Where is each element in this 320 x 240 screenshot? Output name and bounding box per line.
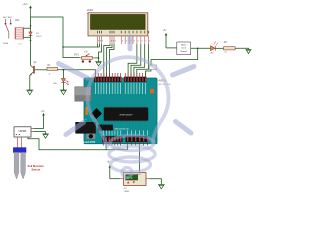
ground right of R2 [245,49,251,53]
relay RL1 contacts [6,19,11,39]
svg-text:+5v: +5v [41,111,46,113]
LCD pin name smudges [97,31,149,34]
node junction at (63,47) [62,46,64,48]
svg-text:RL1: RL1 [15,20,20,22]
svg-text:U1: U1 [124,188,128,190]
ground under LM393 [42,134,49,138]
wire LED1 to R2 [215,47,223,49]
wire to water sensor box [166,47,177,49]
resistor R1 [47,65,58,76]
svg-text:+5v: +5v [84,51,89,53]
wire Q1 base to R1 [35,69,47,71]
svg-text:Sensor: Sensor [180,50,187,53]
wire +5V to LM35 [110,178,121,180]
node +12V power arrow [23,4,32,17]
svg-text:ATMEGA328P: ATMEGA328P [120,113,134,116]
wire LCD E to arduino [109,44,114,77]
LCD pins [98,36,149,44]
arduino small chip [98,125,113,131]
svg-text:Read BTN: Read BTN [82,140,95,144]
svg-text:RV1: RV1 [74,55,79,57]
svg-text:100M: 100M [3,43,8,45]
svg-text:level: level [182,48,187,50]
wire Q1 emitter to ground [29,75,31,90]
wire arduino A3 to LM35 [139,146,141,171]
svg-text:NC NO: NC NO [3,17,12,19]
arduino top pin labels [95,83,146,94]
svg-text:LED: LED [53,83,57,85]
wire LCD VEE to pot junction and ground [99,44,102,62]
arduino USB connector [75,87,91,101]
LED D3 right [210,42,218,55]
wire h47 to LCD VDD [63,46,100,48]
wire LCD D4 to arduino [128,44,137,77]
arduino top header left [94,77,122,82]
relay RL1 labels [3,17,23,46]
svg-text:12V: 12V [18,44,22,46]
ground under LED [60,90,67,95]
svg-text:Soil Moisture: Soil Moisture [28,164,45,168]
wire arduino pin down [105,146,107,150]
svg-text:Water: Water [181,44,187,47]
svg-text:MN-0505D-SU: MN-0505D-SU [115,128,130,130]
potentiometer RV1 [74,51,95,62]
wire LM393 vcc [34,128,44,130]
arduino power jack [75,122,96,134]
svg-text:LM35: LM35 [124,191,130,193]
arduino top header right [124,77,147,82]
relay RL1 coil [15,28,24,40]
wire coil stub top [24,27,31,29]
arduino bottom header left [102,136,123,142]
arduino orange part right [150,89,154,94]
LED D2 [53,79,69,86]
watermark light bulb [59,37,195,178]
wire LCD D5 to arduino [131,44,141,77]
LM393 right stubs [31,128,34,130]
arduino logo diamond [91,108,102,119]
wire LCD D6 to arduino [134,44,145,77]
svg-text:LED: LED [210,52,214,54]
wire LED to ground [62,82,64,90]
resistor R2 [224,42,236,54]
net label box [150,65,157,70]
LCD1 labels [87,9,94,15]
node +5V arrow water sensor [163,30,168,48]
LCD pin numbers [98,40,150,42]
wire junction down to arduino pin0 [146,48,198,77]
arduino MCU ATMEGA328P [104,106,148,121]
wire coil stub bottom [24,36,31,38]
svg-text:+12v: +12v [23,4,29,6]
soil probe left [14,152,19,179]
svg-text:+5v: +5v [163,30,168,32]
diode D1 1N4007 [29,32,42,38]
svg-text:R2: R2 [224,42,228,44]
arduino bottom pin labels [103,130,148,135]
wire LM35 to ground [149,179,161,185]
node junction LED branch [63,69,65,71]
wire top horizontal to x63 [31,17,80,58]
arduino bottom header right [126,136,148,142]
LM35 right pin [146,178,149,180]
svg-text:LM393: LM393 [19,130,27,133]
wire LCD RS to arduino [104,44,110,77]
LM35 top pin [139,171,141,173]
wire LCD VDD stub [99,44,101,47]
node junction water sensor [197,48,199,50]
node +5V arrow LM393 [41,111,46,129]
ground under Q1 [26,90,33,95]
water level sensor box [177,42,191,55]
LM393 box [14,127,31,137]
soil probe blue band [13,148,26,153]
LCD screen [91,15,145,30]
arduino top pins [95,73,146,77]
soil probe right [21,152,26,179]
wire LCD D7 to arduino [137,44,149,77]
wire R2 to ground [235,48,248,49]
wire LM393 gnd [34,132,46,134]
svg-text:D1: D1 [36,33,40,35]
node junction A0 [127,146,129,148]
temperature sensor U1 LM35 [124,173,146,194]
wire pot to junction [95,57,99,59]
ground right of LM35 [158,185,165,189]
svg-text:1N4007: 1N4007 [36,36,42,38]
wire main +12V vertical to Q1 collector [30,17,32,65]
svg-text:Sensor: Sensor [32,168,41,172]
ground under pot junction [95,62,102,66]
transistor Q1 [30,62,37,76]
label soil moisture sensor [28,164,45,172]
svg-text:Q1: Q1 [34,62,38,64]
arduino orange LED [85,107,88,115]
svg-text:R1: R1 [48,65,52,67]
wire R1 to arduino pin8 [58,70,96,77]
Arduino ARD1 board [84,78,157,144]
wire water sensor to LED1 [191,47,211,49]
node junction dots on relay wire [30,25,32,27]
LCD LM016L body [88,13,148,36]
svg-text:10k: 10k [224,52,227,54]
wire LCD RW to arduino [107,44,112,77]
LM393 probe pins [16,137,18,148]
wire LCD VSS stub [97,44,99,47]
node +5V arrow LM35 [107,162,112,179]
wire LM393 output to arduino A0 [28,137,128,150]
arduino bottom pins [103,142,148,146]
LM35 left pin [120,178,123,180]
svg-text:1k: 1k [49,74,51,76]
node junction pot/VEE [98,57,100,59]
wire to LED [62,70,64,79]
svg-text:LCD1: LCD1 [87,9,94,12]
